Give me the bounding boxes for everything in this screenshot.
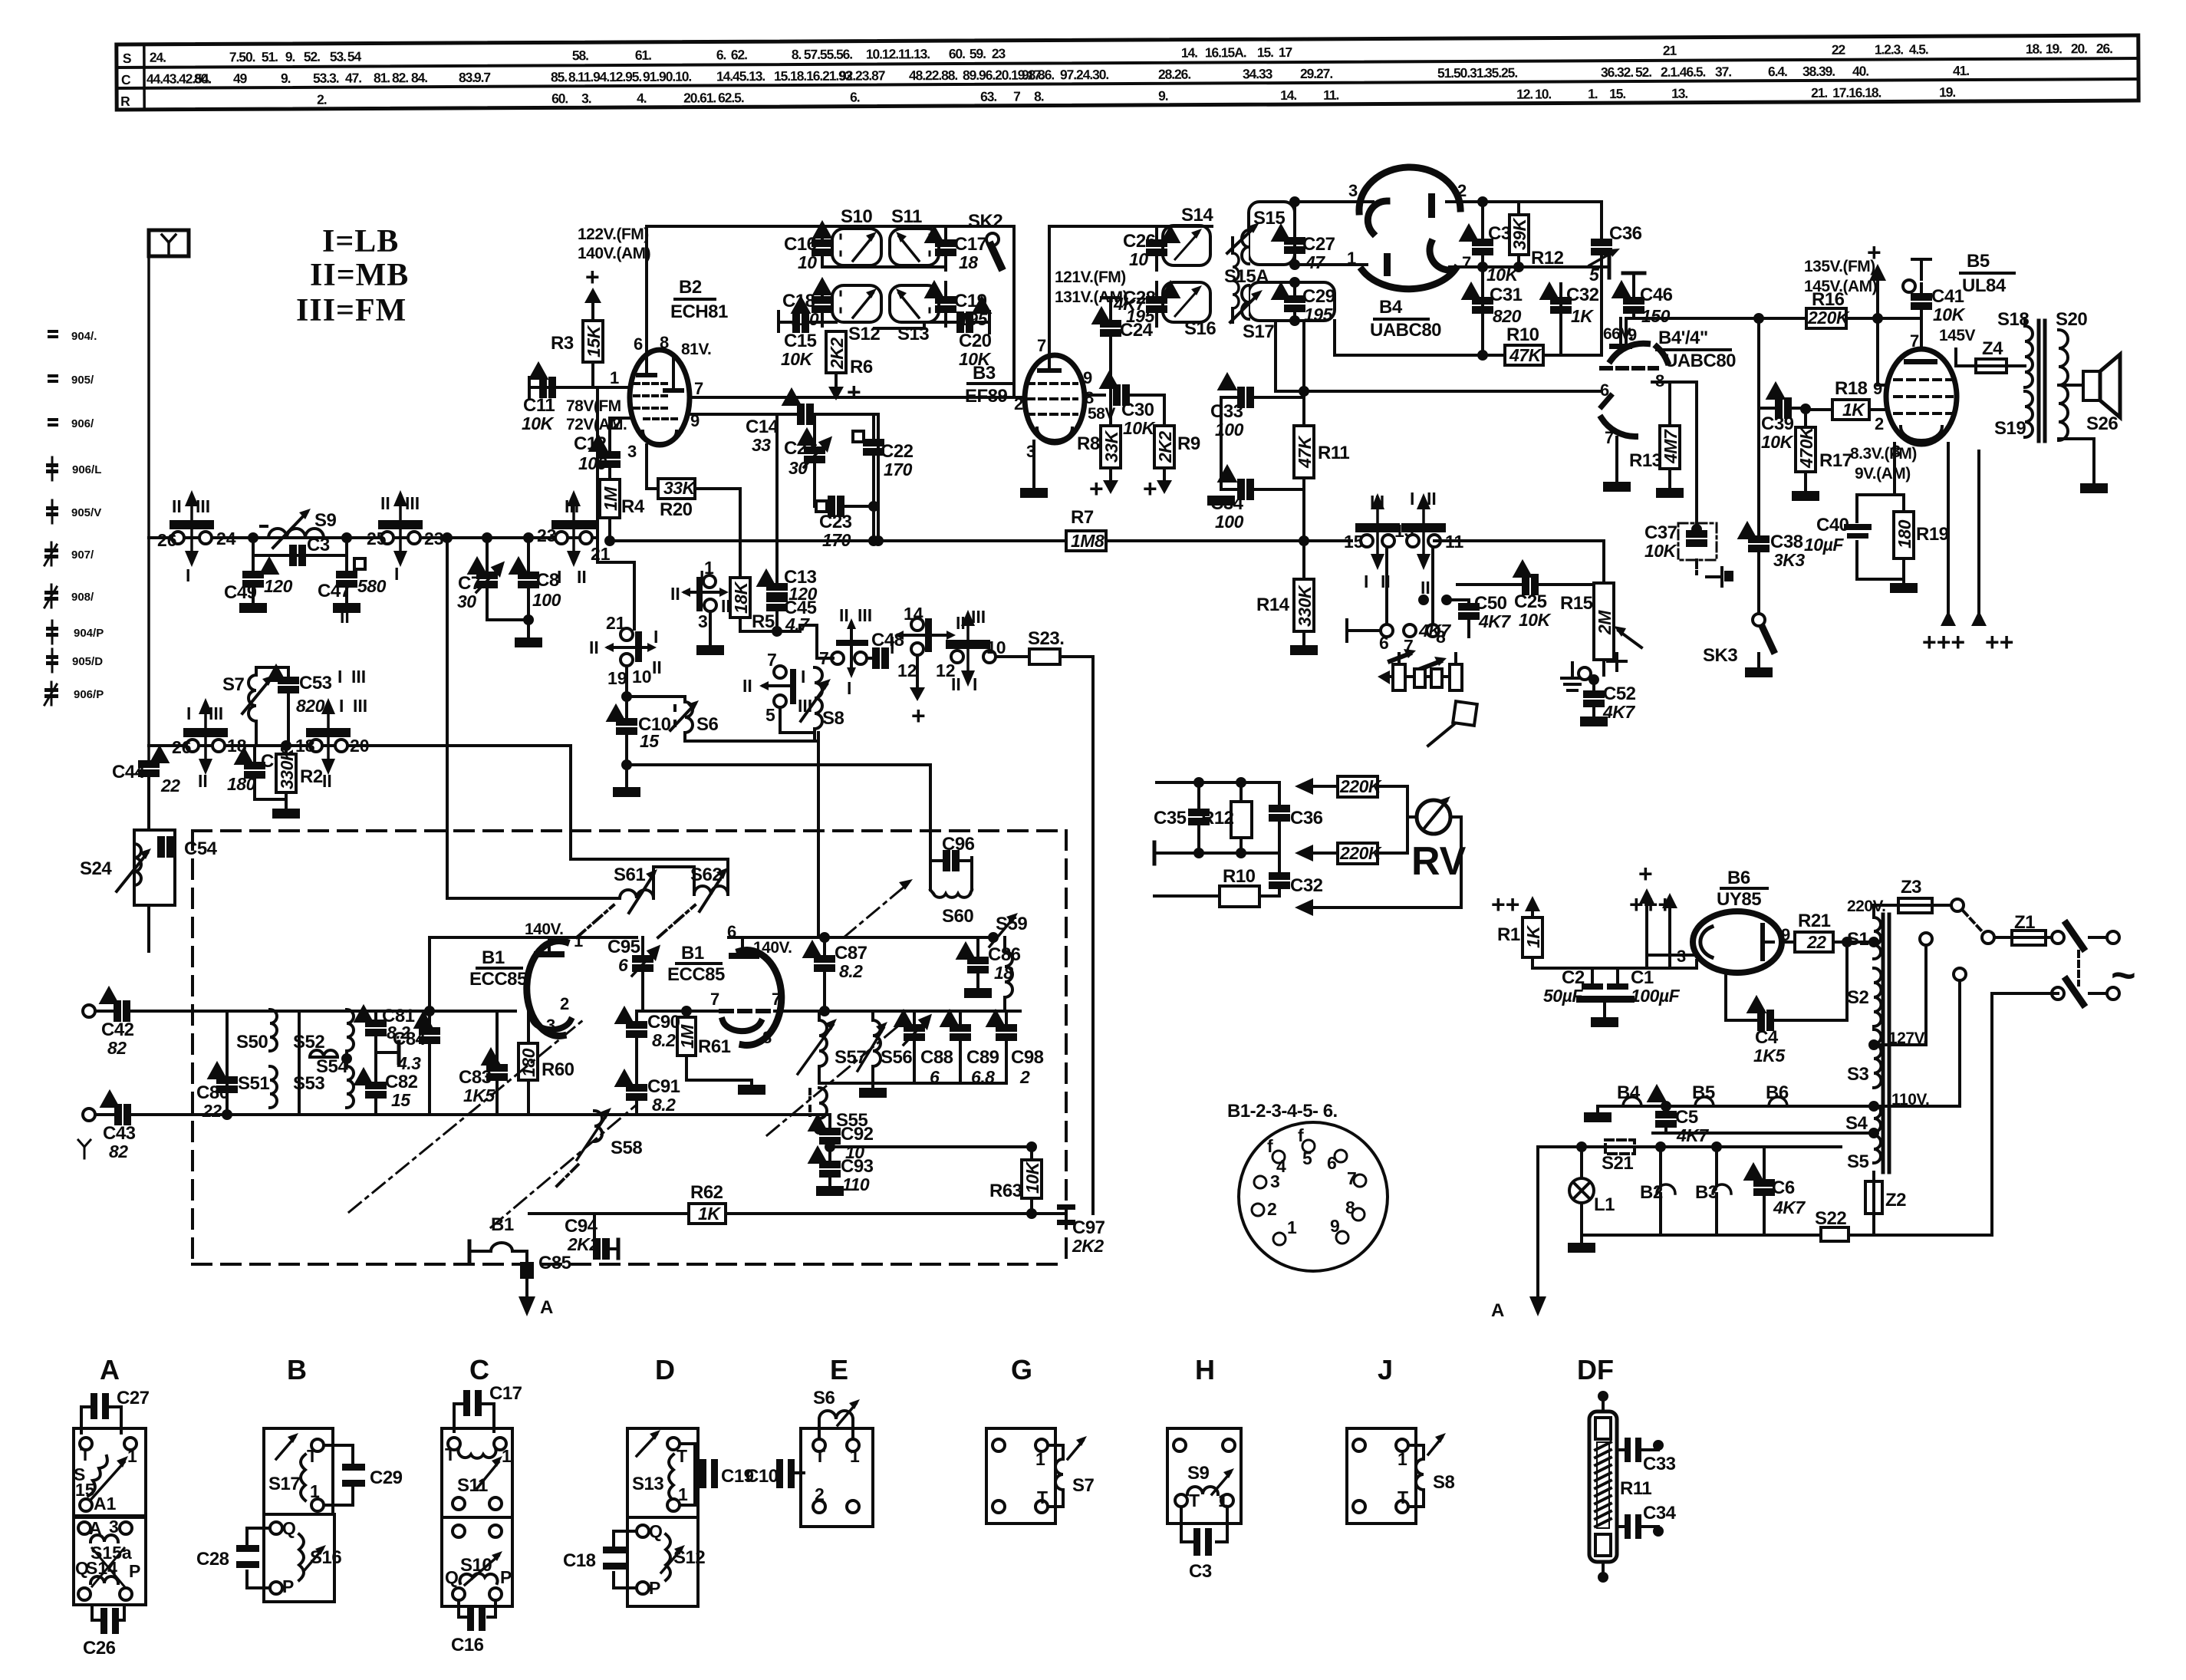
- legend I=LB II=MB III=FM: [296, 224, 409, 328]
- capacitors C92 C93: [828, 1115, 831, 1131]
- AGC rail with R7: [610, 539, 1066, 542]
- svg-text:C16: C16: [784, 234, 817, 255]
- coils S57 S56, trimmers C88 C89 C98: [818, 1011, 821, 1020]
- chassis point C52: [1562, 677, 1583, 680]
- resistor R3 15K: [583, 321, 603, 362]
- svg-text:330K: 330K: [1295, 585, 1315, 627]
- svg-text:9.7: 9.7: [474, 70, 490, 85]
- svg-text:1: 1: [704, 558, 714, 578]
- svg-text:C92: C92: [841, 1124, 874, 1145]
- cathode network C40 / R19: [1893, 443, 1896, 495]
- svg-text:14.45.13.: 14.45.13.: [716, 68, 765, 84]
- svg-text:++: ++: [1985, 628, 2013, 656]
- svg-text:S13: S13: [632, 1474, 663, 1494]
- svg-text:195: 195: [1126, 306, 1156, 326]
- svg-text:C1: C1: [1631, 967, 1654, 988]
- svg-text:470K: 470K: [1796, 426, 1816, 469]
- heater chain B4 B5 B6 lamps: [1598, 1105, 1874, 1108]
- svg-text:S7: S7: [222, 674, 245, 695]
- svg-text:50µF: 50µF: [1543, 986, 1583, 1006]
- svg-text:220K: 220K: [1339, 776, 1382, 796]
- svg-text:98.86.: 98.86.: [1022, 67, 1054, 82]
- svg-text:R10: R10: [1223, 866, 1256, 887]
- svg-text:A: A: [100, 1354, 120, 1385]
- svg-text:82.: 82.: [392, 70, 408, 85]
- svg-text:R10: R10: [1506, 324, 1539, 345]
- svg-text:R62: R62: [690, 1182, 723, 1203]
- capacitor C29: [1293, 282, 1296, 298]
- capacitor C28: [1155, 282, 1158, 299]
- coils S52/S53/S54: [298, 1011, 301, 1115]
- svg-text:C32: C32: [1566, 285, 1599, 305]
- svg-text:21.: 21.: [1811, 85, 1827, 100]
- svg-text:1: 1: [127, 1446, 137, 1466]
- svg-text:II: II: [577, 567, 587, 587]
- svg-text:C32: C32: [1290, 875, 1323, 896]
- svg-text:23: 23: [424, 529, 444, 548]
- resistor R20 33K: [645, 445, 648, 489]
- FM unit dashed outline: [193, 829, 1066, 832]
- svg-text:III: III: [858, 605, 872, 625]
- svg-text:UABC80: UABC80: [1664, 351, 1736, 371]
- svg-text:33K: 33K: [1101, 430, 1121, 463]
- svg-text:38.39.: 38.39.: [1802, 64, 1835, 79]
- svg-text:C44: C44: [112, 762, 146, 782]
- svg-text:906/: 906/: [71, 417, 94, 430]
- svg-text:122V.(FM): 122V.(FM): [578, 226, 649, 243]
- svg-text:22: 22: [160, 776, 180, 796]
- svg-text:R61: R61: [698, 1036, 731, 1057]
- capacitor C39: [1759, 407, 1777, 410]
- svg-text:4M7: 4M7: [1661, 429, 1681, 464]
- detail D : coil S13/S12 unit: [627, 1428, 698, 1517]
- svg-text:29.27.: 29.27.: [1300, 66, 1332, 81]
- detail A : capacitor C26: [91, 1605, 94, 1620]
- svg-text:+: +: [1867, 239, 1881, 266]
- volume pot R15 2M: [1602, 541, 1605, 583]
- switch contact 26/24: [171, 494, 212, 563]
- svg-text:19: 19: [607, 668, 627, 688]
- svg-text:C22: C22: [881, 441, 914, 462]
- svg-text:14.: 14.: [1280, 87, 1296, 103]
- IF can S14: [1163, 226, 1210, 265]
- svg-text:140V.: 140V.: [525, 921, 563, 938]
- svg-text:III: III: [351, 667, 366, 687]
- svg-text:B5: B5: [1967, 251, 1990, 272]
- svg-text:ECC85: ECC85: [667, 964, 725, 985]
- svg-text:19.: 19.: [2046, 41, 2062, 56]
- phono pickup: [1453, 701, 1477, 726]
- svg-text:B: B: [287, 1354, 307, 1385]
- svg-text:A1: A1: [94, 1494, 117, 1514]
- capacitor C5: [1662, 1102, 1670, 1110]
- svg-text:10K: 10K: [781, 349, 814, 369]
- capacitor C22: [872, 414, 875, 442]
- svg-text:S58: S58: [611, 1138, 642, 1158]
- wire: antenna down the left side: [147, 243, 150, 256]
- svg-text:2: 2: [1267, 1199, 1277, 1219]
- svg-text:C85: C85: [538, 1253, 571, 1273]
- svg-text:7: 7: [767, 650, 777, 670]
- svg-text:UL84: UL84: [1962, 275, 2007, 296]
- svg-text:I: I: [1410, 489, 1414, 509]
- svg-text:13: 13: [1394, 521, 1414, 541]
- svg-text:R18: R18: [1835, 378, 1868, 399]
- svg-text:7.50.: 7.50.: [229, 49, 255, 64]
- fuse Z1: [2014, 912, 2035, 933]
- svg-text:C95: C95: [607, 937, 640, 957]
- svg-text:B2: B2: [679, 277, 702, 298]
- svg-text:S3: S3: [1847, 1064, 1869, 1085]
- svg-text:10: 10: [986, 637, 1006, 657]
- svg-text:S22: S22: [1815, 1208, 1846, 1229]
- svg-text:C82: C82: [385, 1072, 418, 1092]
- detail E : coil S6: [819, 1411, 853, 1419]
- svg-text:C25: C25: [1514, 591, 1547, 612]
- detail H : capacitor C3: [1180, 1507, 1183, 1542]
- svg-text:T: T: [677, 1446, 687, 1466]
- svg-text:I: I: [700, 567, 704, 587]
- resistor R10 47K: [1336, 354, 1505, 357]
- resistor R13 4M7: [1652, 380, 1670, 384]
- svg-text:Q: Q: [282, 1518, 296, 1538]
- wire: FM det line to pin 6: [1276, 390, 1600, 393]
- svg-text:150: 150: [1641, 306, 1671, 326]
- svg-text:23: 23: [537, 525, 557, 545]
- svg-text:I: I: [1364, 572, 1368, 591]
- svg-text:R16: R16: [1812, 289, 1845, 310]
- svg-text:D: D: [655, 1354, 675, 1385]
- svg-text:R5: R5: [752, 611, 775, 632]
- tube socket pinning diagram B1-2-3-4-5-6: [1227, 1101, 1338, 1122]
- svg-text:C54: C54: [184, 838, 218, 859]
- svg-text:9: 9: [1628, 325, 1637, 344]
- svg-text:+: +: [1638, 860, 1653, 888]
- svg-text:1: 1: [502, 1446, 512, 1466]
- capacitor C32 (detail): [1278, 853, 1281, 875]
- svg-text:8.: 8.: [568, 69, 578, 84]
- detail C : coil S11/S10 unit: [442, 1428, 512, 1517]
- svg-text:P: P: [129, 1561, 140, 1581]
- svg-text:C14: C14: [746, 417, 779, 437]
- svg-text:1M: 1M: [677, 1024, 697, 1049]
- svg-text:S4: S4: [1845, 1113, 1868, 1134]
- svg-text:III=FM: III=FM: [296, 293, 407, 328]
- svg-text:S12: S12: [673, 1547, 705, 1568]
- svg-text:T: T: [80, 1444, 91, 1464]
- svg-text:26.: 26.: [2096, 41, 2112, 56]
- svg-text:20.: 20.: [683, 91, 700, 106]
- capacitor C10: [625, 697, 628, 721]
- svg-text:8.2: 8.2: [652, 1030, 676, 1050]
- svg-text:R2: R2: [300, 766, 323, 787]
- coil S58: [594, 1111, 602, 1141]
- svg-text:18: 18: [295, 736, 315, 756]
- resistor R21 22: [1782, 940, 1795, 944]
- capacitor C25: [1457, 583, 1524, 586]
- svg-text:C17: C17: [954, 234, 987, 255]
- svg-text:C17: C17: [489, 1383, 522, 1404]
- svg-text:S1: S1: [1847, 929, 1869, 950]
- svg-text:5: 5: [765, 705, 775, 725]
- svg-text:195: 195: [1304, 305, 1334, 324]
- svg-text:13.: 13.: [1671, 86, 1687, 101]
- svg-text:1: 1: [610, 368, 619, 387]
- svg-text:C10: C10: [746, 1466, 779, 1487]
- wire: aerial band rail: [149, 536, 598, 539]
- svg-text:10µF: 10µF: [1804, 535, 1844, 555]
- svg-text:I: I: [890, 633, 894, 653]
- svg-text:10K: 10K: [522, 413, 555, 433]
- svg-text:40.: 40.: [1852, 64, 1868, 79]
- svg-text:C6: C6: [1772, 1178, 1795, 1198]
- wire: pin7 to B3 grid: [689, 396, 1026, 399]
- detail H : unit box + coil S9: [1167, 1428, 1241, 1524]
- capacitor C30: [1084, 394, 1105, 397]
- svg-text:A: A: [1491, 1300, 1504, 1321]
- svg-text:9: 9: [1330, 1216, 1340, 1236]
- svg-text:C94: C94: [565, 1216, 598, 1237]
- svg-text:S9: S9: [314, 510, 337, 531]
- svg-text:12: 12: [897, 660, 917, 680]
- svg-text:R1: R1: [1497, 924, 1520, 945]
- svg-text:53.3.: 53.3.: [313, 71, 339, 86]
- svg-text:100µF: 100µF: [1631, 986, 1681, 1006]
- svg-text:904/.: 904/.: [71, 330, 97, 343]
- svg-text:1: 1: [1398, 1449, 1407, 1469]
- svg-text:22: 22: [1806, 932, 1826, 952]
- capacitor C94: [593, 1214, 596, 1249]
- svg-text:S50: S50: [236, 1032, 268, 1052]
- svg-text:A: A: [89, 1518, 102, 1538]
- svg-text:P: P: [500, 1567, 512, 1587]
- capacitor C12 + resistor R4: [610, 417, 629, 420]
- IF can S15: [1249, 202, 1295, 265]
- capacitor C16: [821, 226, 824, 242]
- capacitor C15: [777, 311, 780, 331]
- wire: B+ to tube: [645, 226, 648, 353]
- capacitor C27: [1293, 202, 1296, 239]
- svg-text:II: II: [652, 657, 662, 677]
- svg-text:9V.(AM): 9V.(AM): [1855, 465, 1911, 483]
- svg-text:II: II: [340, 607, 350, 627]
- svg-text:2.1.46.5.: 2.1.46.5.: [1661, 64, 1706, 80]
- svg-text:9.: 9.: [285, 49, 295, 64]
- trimmer C36: [1600, 202, 1603, 239]
- svg-text:S16: S16: [1184, 318, 1216, 339]
- resistor R8 33K: [1101, 426, 1121, 468]
- svg-text:41.: 41.: [1953, 63, 1969, 78]
- svg-text:58.: 58.: [572, 48, 588, 63]
- svg-text:18K: 18K: [731, 581, 751, 614]
- svg-text:36.32.: 36.32.: [1601, 64, 1633, 80]
- svg-text:180: 180: [1895, 519, 1914, 548]
- svg-text:47: 47: [1305, 252, 1325, 272]
- svg-text:B3: B3: [1695, 1182, 1718, 1203]
- svg-text:C30: C30: [1121, 400, 1154, 420]
- svg-text:R15: R15: [1560, 593, 1593, 614]
- svg-text:10K: 10K: [1933, 305, 1966, 324]
- tube B3 EF89: [1025, 355, 1085, 443]
- svg-text:C42: C42: [101, 1020, 134, 1040]
- capacitor C37 (dashed): [1658, 380, 1697, 384]
- capacitor C41: [1912, 258, 1931, 261]
- resistor R61 1M: [683, 1007, 690, 1015]
- svg-text:54: 54: [347, 49, 362, 64]
- coil S9: [261, 509, 324, 548]
- svg-text:C97: C97: [1072, 1217, 1105, 1238]
- svg-text:1: 1: [850, 1446, 860, 1466]
- svg-text:908/: 908/: [71, 591, 94, 604]
- wire: screen feed pin 9: [1876, 318, 1879, 385]
- svg-text:A: A: [540, 1297, 553, 1318]
- svg-text:R6: R6: [850, 357, 873, 377]
- svg-text:C38: C38: [1770, 532, 1803, 552]
- svg-text:C87: C87: [835, 943, 867, 964]
- svg-text:7: 7: [1347, 1168, 1357, 1188]
- svg-text:2: 2: [1019, 1067, 1030, 1087]
- svg-text:I: I: [847, 678, 851, 698]
- svg-text:I: I: [186, 565, 190, 585]
- svg-text:91.90.10.: 91.90.10.: [643, 69, 691, 84]
- svg-text:R63: R63: [989, 1181, 1022, 1201]
- svg-text:C93: C93: [841, 1156, 874, 1177]
- svg-text:820: 820: [296, 696, 325, 716]
- svg-text:15K: 15K: [584, 324, 604, 357]
- svg-text:22: 22: [202, 1101, 222, 1121]
- svg-text:C35: C35: [1154, 808, 1187, 828]
- wire: grid feed up to B2: [596, 387, 599, 562]
- svg-text:C36: C36: [1609, 223, 1642, 244]
- resistor R63 10K: [1030, 1147, 1033, 1160]
- tube B1 ECC85 right half: [739, 950, 782, 1046]
- wire: oscillator lines: [685, 740, 818, 743]
- svg-text:B4: B4: [1617, 1082, 1641, 1103]
- svg-text:II: II: [951, 674, 961, 694]
- svg-text:B3: B3: [973, 363, 996, 384]
- svg-text:18.: 18.: [2026, 41, 2042, 57]
- capacitor C3: [252, 538, 255, 555]
- svg-text:R17: R17: [1819, 450, 1852, 471]
- svg-text:C11: C11: [523, 395, 555, 416]
- capacitor C46: [1632, 273, 1635, 299]
- svg-text:1K: 1K: [1523, 925, 1543, 948]
- svg-text:6.: 6.: [850, 90, 860, 105]
- svg-text:S6: S6: [696, 714, 719, 735]
- svg-text:L1: L1: [1594, 1194, 1615, 1215]
- svg-text:UY85: UY85: [1717, 889, 1761, 910]
- svg-text:17: 17: [1279, 44, 1292, 60]
- node 122V/140V supply: [578, 226, 650, 291]
- svg-text:35.25.: 35.25.: [1485, 65, 1517, 81]
- svg-text:+: +: [585, 263, 600, 291]
- svg-text:63.: 63.: [980, 89, 996, 104]
- svg-text:81.: 81.: [374, 70, 390, 85]
- detail B : coil S17 unit: [264, 1428, 333, 1514]
- tuning gang dash-dot diagonals: [349, 1020, 583, 1212]
- svg-text:62.5.: 62.5.: [718, 90, 744, 105]
- capacitor C44: [140, 762, 158, 776]
- capacitors C90 C91: [635, 1011, 638, 1023]
- svg-text:21: 21: [1663, 43, 1677, 58]
- svg-text:30: 30: [788, 458, 808, 478]
- capacitor C47: [345, 555, 348, 574]
- svg-text:1: 1: [574, 931, 583, 950]
- svg-text:R4: R4: [621, 496, 645, 517]
- svg-text:7: 7: [1013, 89, 1020, 104]
- svg-text:10: 10: [798, 252, 817, 272]
- svg-text:80.: 80.: [194, 71, 210, 86]
- left margin tiny cap glyphs: [44, 330, 58, 705]
- capacitor C36 (detail): [1278, 782, 1281, 807]
- svg-text:16.15A.: 16.15A.: [1205, 44, 1246, 60]
- resistors 220K to RV: [1295, 778, 1313, 795]
- svg-text:S60: S60: [942, 906, 973, 927]
- resistor R1 1K + heater feeds: [1491, 860, 1672, 918]
- svg-text:C39: C39: [1761, 413, 1794, 434]
- capacitor C38: [1757, 318, 1760, 539]
- svg-text:906/L: 906/L: [72, 463, 101, 476]
- svg-text:905/D: 905/D: [72, 655, 103, 668]
- svg-text:1K: 1K: [1842, 400, 1865, 420]
- svg-text:C52: C52: [1603, 684, 1636, 704]
- svg-text:6: 6: [1327, 1153, 1337, 1173]
- svg-text:H: H: [1195, 1354, 1215, 1385]
- svg-text:3: 3: [1270, 1171, 1280, 1191]
- capacitor C49: [252, 555, 255, 574]
- svg-text:19.: 19.: [1939, 84, 1955, 100]
- svg-text:26: 26: [172, 737, 192, 757]
- svg-text:C37: C37: [1644, 522, 1677, 543]
- svg-text:3: 3: [109, 1517, 119, 1537]
- svg-text:4K7: 4K7: [1676, 1125, 1709, 1145]
- detail B : capacitor C28: [247, 1527, 270, 1530]
- IF can S16: [1163, 282, 1210, 322]
- svg-text:S14: S14: [86, 1558, 117, 1578]
- coil S7: [255, 721, 258, 746]
- capacitor C4: [1724, 971, 1727, 1020]
- fuse link B1: [468, 1241, 472, 1261]
- svg-text:33: 33: [752, 435, 771, 455]
- svg-text:84.: 84.: [411, 70, 427, 85]
- wire: 140V rail left: [430, 936, 637, 939]
- svg-text:49: 49: [233, 71, 248, 86]
- svg-text:I: I: [394, 564, 399, 584]
- svg-text:6: 6: [634, 334, 643, 354]
- svg-text:85.: 85.: [551, 69, 567, 84]
- svg-text:3: 3: [1348, 181, 1358, 200]
- svg-text:180: 180: [227, 774, 256, 794]
- svg-text:S8: S8: [822, 708, 844, 729]
- switch SK3: [1753, 614, 1765, 626]
- capacitor C50: [1420, 596, 1427, 604]
- svg-text:47.: 47.: [345, 71, 361, 86]
- svg-text:39K: 39K: [1509, 217, 1529, 250]
- svg-text:1M8: 1M8: [1071, 531, 1105, 551]
- resistor R6 2K2: [826, 331, 846, 373]
- capacitor C85: [520, 1262, 534, 1279]
- svg-text:53.: 53.: [330, 49, 346, 64]
- capacitor C83: [495, 1011, 499, 1066]
- svg-text:C33: C33: [1210, 401, 1243, 422]
- svg-text:97.24.30.: 97.24.30.: [1060, 67, 1108, 82]
- svg-text:I: I: [337, 667, 342, 687]
- svg-text:61.: 61.: [635, 48, 651, 63]
- svg-text:III: III: [405, 493, 420, 513]
- svg-text:2: 2: [1875, 414, 1884, 433]
- svg-text:S23.: S23.: [1028, 628, 1064, 649]
- svg-text:II: II: [1427, 489, 1437, 509]
